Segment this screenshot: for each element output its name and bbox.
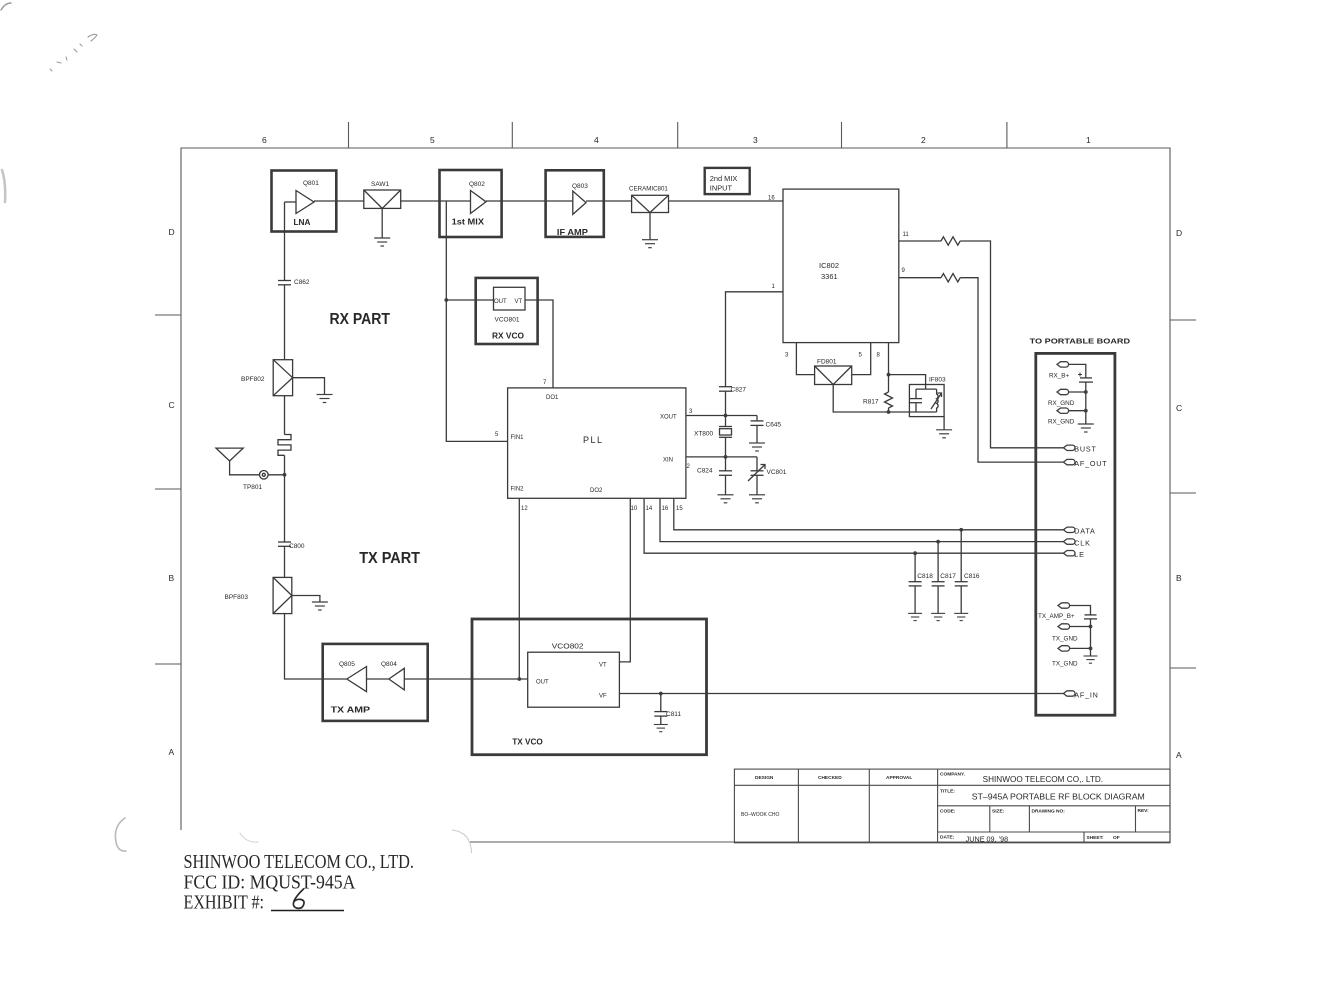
wire PLL pin 10 to VCO802 VT xyxy=(619,498,630,662)
svg-text:DRAWING NO:: DRAWING NO: xyxy=(1032,809,1066,815)
wire CERAMIC801 to IC802 pin 16 xyxy=(669,200,784,202)
ground at IF803 xyxy=(936,417,952,438)
connector pin DATA xyxy=(1063,527,1095,536)
svg-text:DO2: DO2 xyxy=(590,488,603,494)
svg-text:3: 3 xyxy=(785,353,789,359)
svg-text:CODE:: CODE: xyxy=(940,809,956,815)
svg-text:Q803: Q803 xyxy=(572,183,588,190)
svg-text:Q805: Q805 xyxy=(339,661,355,668)
IC U802 IC802 3361 xyxy=(783,189,899,343)
node LE cap junction xyxy=(913,551,917,555)
amplifier block Q801 LNA xyxy=(272,171,337,281)
svg-text:REV:: REV: xyxy=(1138,808,1150,814)
wire resistor to BUST xyxy=(960,241,1063,448)
svg-text:INPUT: INPUT xyxy=(710,184,733,193)
wire Q803 to CERAMIC801 xyxy=(586,200,632,202)
svg-text:SHEET:: SHEET: xyxy=(1087,835,1104,841)
svg-text:R817: R817 xyxy=(863,399,879,406)
svg-text:C818: C818 xyxy=(917,573,933,580)
ground at TX_GND rail xyxy=(1084,656,1098,663)
antenna xyxy=(216,448,260,475)
wire Q802 input tap down to FIN1 xyxy=(446,201,507,441)
capacitor C862 xyxy=(278,279,310,286)
wire VCO802 VF to AF_IN xyxy=(619,693,1063,695)
capacitor C827 xyxy=(719,387,746,416)
svg-text:VF: VF xyxy=(599,694,607,700)
svg-text:RX VCO: RX VCO xyxy=(492,331,524,341)
connector pin RX_B+ xyxy=(1049,362,1069,380)
svg-text:FIN1: FIN1 xyxy=(511,435,525,441)
svg-text:CHECKED: CHECKED xyxy=(818,775,842,781)
filter FD801 xyxy=(815,359,852,385)
ground at CERAMIC801 xyxy=(642,213,658,248)
svg-text:XT800: XT800 xyxy=(694,431,714,438)
wire node to RX VCO OUT xyxy=(446,299,493,301)
svg-text:Q802: Q802 xyxy=(469,181,485,188)
capacitor C800 xyxy=(278,542,305,550)
node RX VCO tap xyxy=(444,298,448,302)
wire pin 5 to FD801 xyxy=(852,343,871,375)
svg-text:ST–945A PORTABLE RF BLOCK DIAG: ST–945A PORTABLE RF BLOCK DIAGRAM xyxy=(972,792,1145,802)
svg-text:9: 9 xyxy=(902,268,906,274)
svg-text:DESIGN: DESIGN xyxy=(755,775,774,781)
node pin 8 junction xyxy=(887,373,891,377)
svg-text:Q804: Q804 xyxy=(381,661,397,668)
white patch over lower-left frame corner xyxy=(138,830,472,968)
connector pin TX_AMP_B+ xyxy=(1038,603,1075,620)
svg-text:AF_OUT: AF_OUT xyxy=(1074,459,1107,468)
svg-text:1st MIX: 1st MIX xyxy=(452,217,485,227)
svg-text:C817: C817 xyxy=(940,573,956,580)
svg-text:IF AMP: IF AMP xyxy=(557,227,588,237)
node DATA cap junction xyxy=(959,528,963,532)
wire BPF802 to inductor xyxy=(284,396,286,435)
svg-text:AF_IN: AF_IN xyxy=(1074,690,1098,699)
svg-text:CERAMIC801: CERAMIC801 xyxy=(629,186,668,193)
node CLK cap junction xyxy=(936,540,940,544)
title block xyxy=(734,769,1170,843)
svg-text:VCO801: VCO801 xyxy=(495,317,520,324)
wire Q801 to SAW1 xyxy=(314,200,364,202)
test point TP801 xyxy=(243,471,285,492)
svg-text:15: 15 xyxy=(676,506,683,512)
wire cap to ground rail xyxy=(1085,382,1087,424)
wire pin 8 down xyxy=(888,343,890,375)
svg-text:11: 11 xyxy=(903,232,910,238)
svg-text:FIN2: FIN2 xyxy=(511,487,525,493)
svg-text:16: 16 xyxy=(768,196,775,202)
svg-text:3361: 3361 xyxy=(821,272,838,281)
svg-text:C811: C811 xyxy=(666,711,681,718)
svg-text:LE: LE xyxy=(1074,550,1084,559)
filter BPF802 xyxy=(241,360,293,396)
svg-text:TP801: TP801 xyxy=(243,484,263,491)
connector pin TX_GND 2 xyxy=(1052,646,1092,668)
svg-text:FD801: FD801 xyxy=(817,359,837,366)
connector pin CLK xyxy=(1063,538,1090,547)
IF transformer IF803 xyxy=(909,377,946,417)
svg-text:B: B xyxy=(1176,573,1182,583)
svg-text:IF803: IF803 xyxy=(929,377,946,384)
svg-text:14: 14 xyxy=(646,506,653,512)
connector pin RX_GND 2 xyxy=(1048,408,1088,426)
connector pin RX_GND 1 xyxy=(1048,389,1088,407)
svg-text:5: 5 xyxy=(430,135,435,145)
svg-text:C800: C800 xyxy=(289,543,305,550)
svg-text:TX_GND: TX_GND xyxy=(1052,636,1078,643)
filter BPF803 xyxy=(225,577,292,613)
connector pin AF_OUT xyxy=(1063,459,1107,468)
svg-text:1: 1 xyxy=(772,284,776,290)
amplifier block Q803 IF AMP xyxy=(546,170,604,237)
svg-text:XIN: XIN xyxy=(663,458,673,464)
svg-text:JUNE 09, ’98: JUNE 09, ’98 xyxy=(966,836,1009,843)
svg-text:SIZE:: SIZE: xyxy=(992,809,1005,815)
filter CERAMIC801 xyxy=(629,186,669,213)
svg-text:FCC ID: MQUST-945A: FCC ID: MQUST-945A xyxy=(184,872,356,894)
capacitor (TX_AMP_B+ bypass) xyxy=(1084,615,1097,619)
svg-text:TX AMP: TX AMP xyxy=(331,704,371,714)
oscillator block RX VCO / VCO801 xyxy=(476,278,538,344)
wire pin 8 node to IF803 xyxy=(889,375,926,390)
svg-text:SHINWOO TELECOM CO,. LTD.: SHINWOO TELECOM CO,. LTD. xyxy=(983,775,1104,784)
svg-text:SHINWOO TELECOM CO., LTD.: SHINWOO TELECOM CO., LTD. xyxy=(184,851,415,873)
svg-text:C824: C824 xyxy=(697,468,713,475)
capacitor C818 xyxy=(908,553,933,620)
svg-text:SAW1: SAW1 xyxy=(371,181,390,188)
svg-text:C: C xyxy=(1176,403,1182,413)
wire Q802 to Q803 xyxy=(486,200,546,202)
wire FD801 bottom rail xyxy=(833,385,936,413)
wire PLL pin 16 to CLK xyxy=(660,498,1063,541)
inductor (antenna matching coil) xyxy=(278,435,291,456)
wire SAW1 to Q802 xyxy=(401,200,440,202)
svg-text:7: 7 xyxy=(543,380,547,386)
connector block TO PORTABLE BOARD xyxy=(1030,337,1131,716)
connector pin LE xyxy=(1063,550,1084,559)
node antenna junction xyxy=(283,473,287,477)
svg-text:BO–WOOK CHO: BO–WOOK CHO xyxy=(741,812,779,818)
svg-text:BPF803: BPF803 xyxy=(225,594,249,601)
svg-text:TX VCO: TX VCO xyxy=(512,737,543,747)
exhibit underline xyxy=(271,910,344,912)
transistor Q804 xyxy=(381,661,404,690)
svg-text:VCO802: VCO802 xyxy=(552,644,584,651)
svg-text:LNA: LNA xyxy=(294,217,311,227)
ground at BPF803 xyxy=(292,596,328,611)
crystal XT800 xyxy=(694,416,732,457)
svg-text:RX PART: RX PART xyxy=(330,311,391,328)
wire RX_B+ to cap xyxy=(1069,364,1086,378)
resistor R (pin11) xyxy=(941,237,960,245)
svg-text:TX_AMP_B+: TX_AMP_B+ xyxy=(1038,613,1075,620)
transistor Q805 xyxy=(339,661,367,692)
svg-text:XOUT: XOUT xyxy=(660,415,677,421)
svg-text:VC801: VC801 xyxy=(767,469,787,476)
svg-text:A: A xyxy=(1176,750,1182,760)
svg-text:VT: VT xyxy=(515,299,523,305)
ground at BPF802 xyxy=(293,378,333,403)
connector pin TX_GND 1 xyxy=(1052,624,1092,643)
wire pin 9 to resistor xyxy=(899,277,941,279)
amplifier block TX AMP xyxy=(323,644,428,721)
svg-text:RX_GND: RX_GND xyxy=(1048,419,1075,426)
wire PLL pin 14 to LE xyxy=(644,498,1063,553)
svg-text:TX_GND: TX_GND xyxy=(1052,661,1078,668)
svg-text:D: D xyxy=(1176,228,1182,238)
ground at SAW1 xyxy=(374,208,390,246)
node XIN junction xyxy=(724,455,728,459)
svg-text:D: D xyxy=(169,227,175,237)
svg-text:TO PORTABLE BOARD: TO PORTABLE BOARD xyxy=(1030,337,1131,346)
wire C800 to BPF803 xyxy=(284,546,286,577)
PLL U801 xyxy=(508,388,686,498)
svg-text:10: 10 xyxy=(631,506,638,512)
svg-text:VT: VT xyxy=(599,663,607,669)
variable capacitor VC801 xyxy=(748,457,787,503)
svg-text:OUT: OUT xyxy=(494,299,507,305)
resistor R (pin9) xyxy=(941,274,960,282)
svg-text:OF: OF xyxy=(1113,835,1120,841)
mixer block Q802 1st MIX xyxy=(440,170,502,237)
wire XOUT line xyxy=(686,415,757,417)
svg-text:APPROVAL: APPROVAL xyxy=(886,775,912,781)
svg-text:IC802: IC802 xyxy=(819,261,839,270)
svg-text:TX PART: TX PART xyxy=(359,550,420,567)
ground at RX_GND rail xyxy=(1078,424,1094,432)
handwritten exhibit number 6 xyxy=(293,889,304,908)
svg-text:DATE:: DATE: xyxy=(940,835,955,841)
svg-text:TITLE:: TITLE: xyxy=(940,789,955,795)
svg-text:2nd MIX: 2nd MIX xyxy=(710,174,738,183)
filter SAW1 xyxy=(364,181,401,208)
node TX VCO OUT junction xyxy=(517,677,521,681)
svg-text:1: 1 xyxy=(1086,135,1091,145)
svg-text:RX_GND: RX_GND xyxy=(1048,400,1075,407)
node XOUT junction xyxy=(724,414,728,418)
svg-text:EXHIBIT #:: EXHIBIT #: xyxy=(184,891,265,913)
annotation box 2nd MIX INPUT xyxy=(705,168,750,194)
capacitor C824 xyxy=(697,457,734,503)
wire pin 11 to resistor xyxy=(899,240,941,242)
wire PLL pin 12 to TX VCO OUT xyxy=(518,498,520,679)
svg-text:16: 16 xyxy=(662,506,669,512)
svg-text:C816: C816 xyxy=(964,573,980,580)
resistor R817 xyxy=(863,375,893,412)
svg-text:C: C xyxy=(169,400,175,410)
svg-text:Q801: Q801 xyxy=(303,180,319,187)
node C811 junction xyxy=(659,692,663,696)
svg-text:2: 2 xyxy=(687,464,691,470)
wire TX_AMP_B+ to cap xyxy=(1070,606,1091,615)
svg-text:B: B xyxy=(169,573,175,583)
pencil artifacts top-left xyxy=(1,3,258,851)
svg-text:BPF802: BPF802 xyxy=(241,376,265,383)
wire BPF803 to TX AMP xyxy=(285,614,347,679)
pin numbers 12 10 14 16 15 xyxy=(521,506,683,512)
connector pin AF_IN xyxy=(1063,690,1098,699)
svg-text:C862: C862 xyxy=(294,279,310,286)
svg-text:CLK: CLK xyxy=(1074,538,1090,547)
wire inductor to antenna node xyxy=(284,455,286,541)
svg-text:OUT: OUT xyxy=(536,680,549,686)
svg-text:PLL: PLL xyxy=(583,435,604,445)
oscillator VCO802 xyxy=(528,644,620,708)
capacitor (RX_B+ bypass) xyxy=(1078,373,1093,383)
connector pin BUST xyxy=(1063,445,1096,454)
wire Q805 to Q804 xyxy=(367,678,389,680)
svg-text:C645: C645 xyxy=(766,422,782,429)
svg-text:2: 2 xyxy=(921,135,926,145)
wire C862 to BPF802 xyxy=(284,285,286,360)
svg-text:A: A xyxy=(169,747,175,757)
wire VCO801 VT to PLL pin 7 xyxy=(525,300,553,388)
svg-text:12: 12 xyxy=(521,506,528,512)
wire IC802 pin 1 to C827 xyxy=(726,292,784,387)
svg-text:RX_B+: RX_B+ xyxy=(1049,373,1069,380)
svg-text:4: 4 xyxy=(594,135,599,145)
capacitor C811 xyxy=(654,694,682,732)
svg-text:DATA: DATA xyxy=(1074,527,1095,536)
svg-text:5: 5 xyxy=(495,432,499,438)
wire XIN line xyxy=(686,456,757,458)
wire Q804 to TX VCO OUT xyxy=(404,678,527,680)
wire resistor to AF_OUT xyxy=(960,278,1063,462)
svg-text:8: 8 xyxy=(877,353,881,359)
svg-text:DO1: DO1 xyxy=(546,395,559,401)
capacitor C817 xyxy=(931,542,956,621)
wire PLL pin 15 to DATA xyxy=(674,498,1064,530)
svg-text:3: 3 xyxy=(753,135,758,145)
wire pin 3 to FD801 xyxy=(796,343,814,375)
node R817 bottom junction xyxy=(887,410,891,414)
capacitor C645 xyxy=(749,416,781,452)
svg-text:3: 3 xyxy=(689,409,693,415)
svg-text:5: 5 xyxy=(859,353,863,359)
wire cap to TX_GND rail xyxy=(1090,619,1092,656)
svg-text:BUST: BUST xyxy=(1074,445,1096,454)
svg-text:COMPANY.: COMPANY. xyxy=(940,772,965,778)
capacitor C816 xyxy=(954,530,980,621)
svg-text:C827: C827 xyxy=(731,387,747,394)
svg-text:6: 6 xyxy=(262,135,267,145)
oscillator block TX VCO xyxy=(472,619,707,755)
